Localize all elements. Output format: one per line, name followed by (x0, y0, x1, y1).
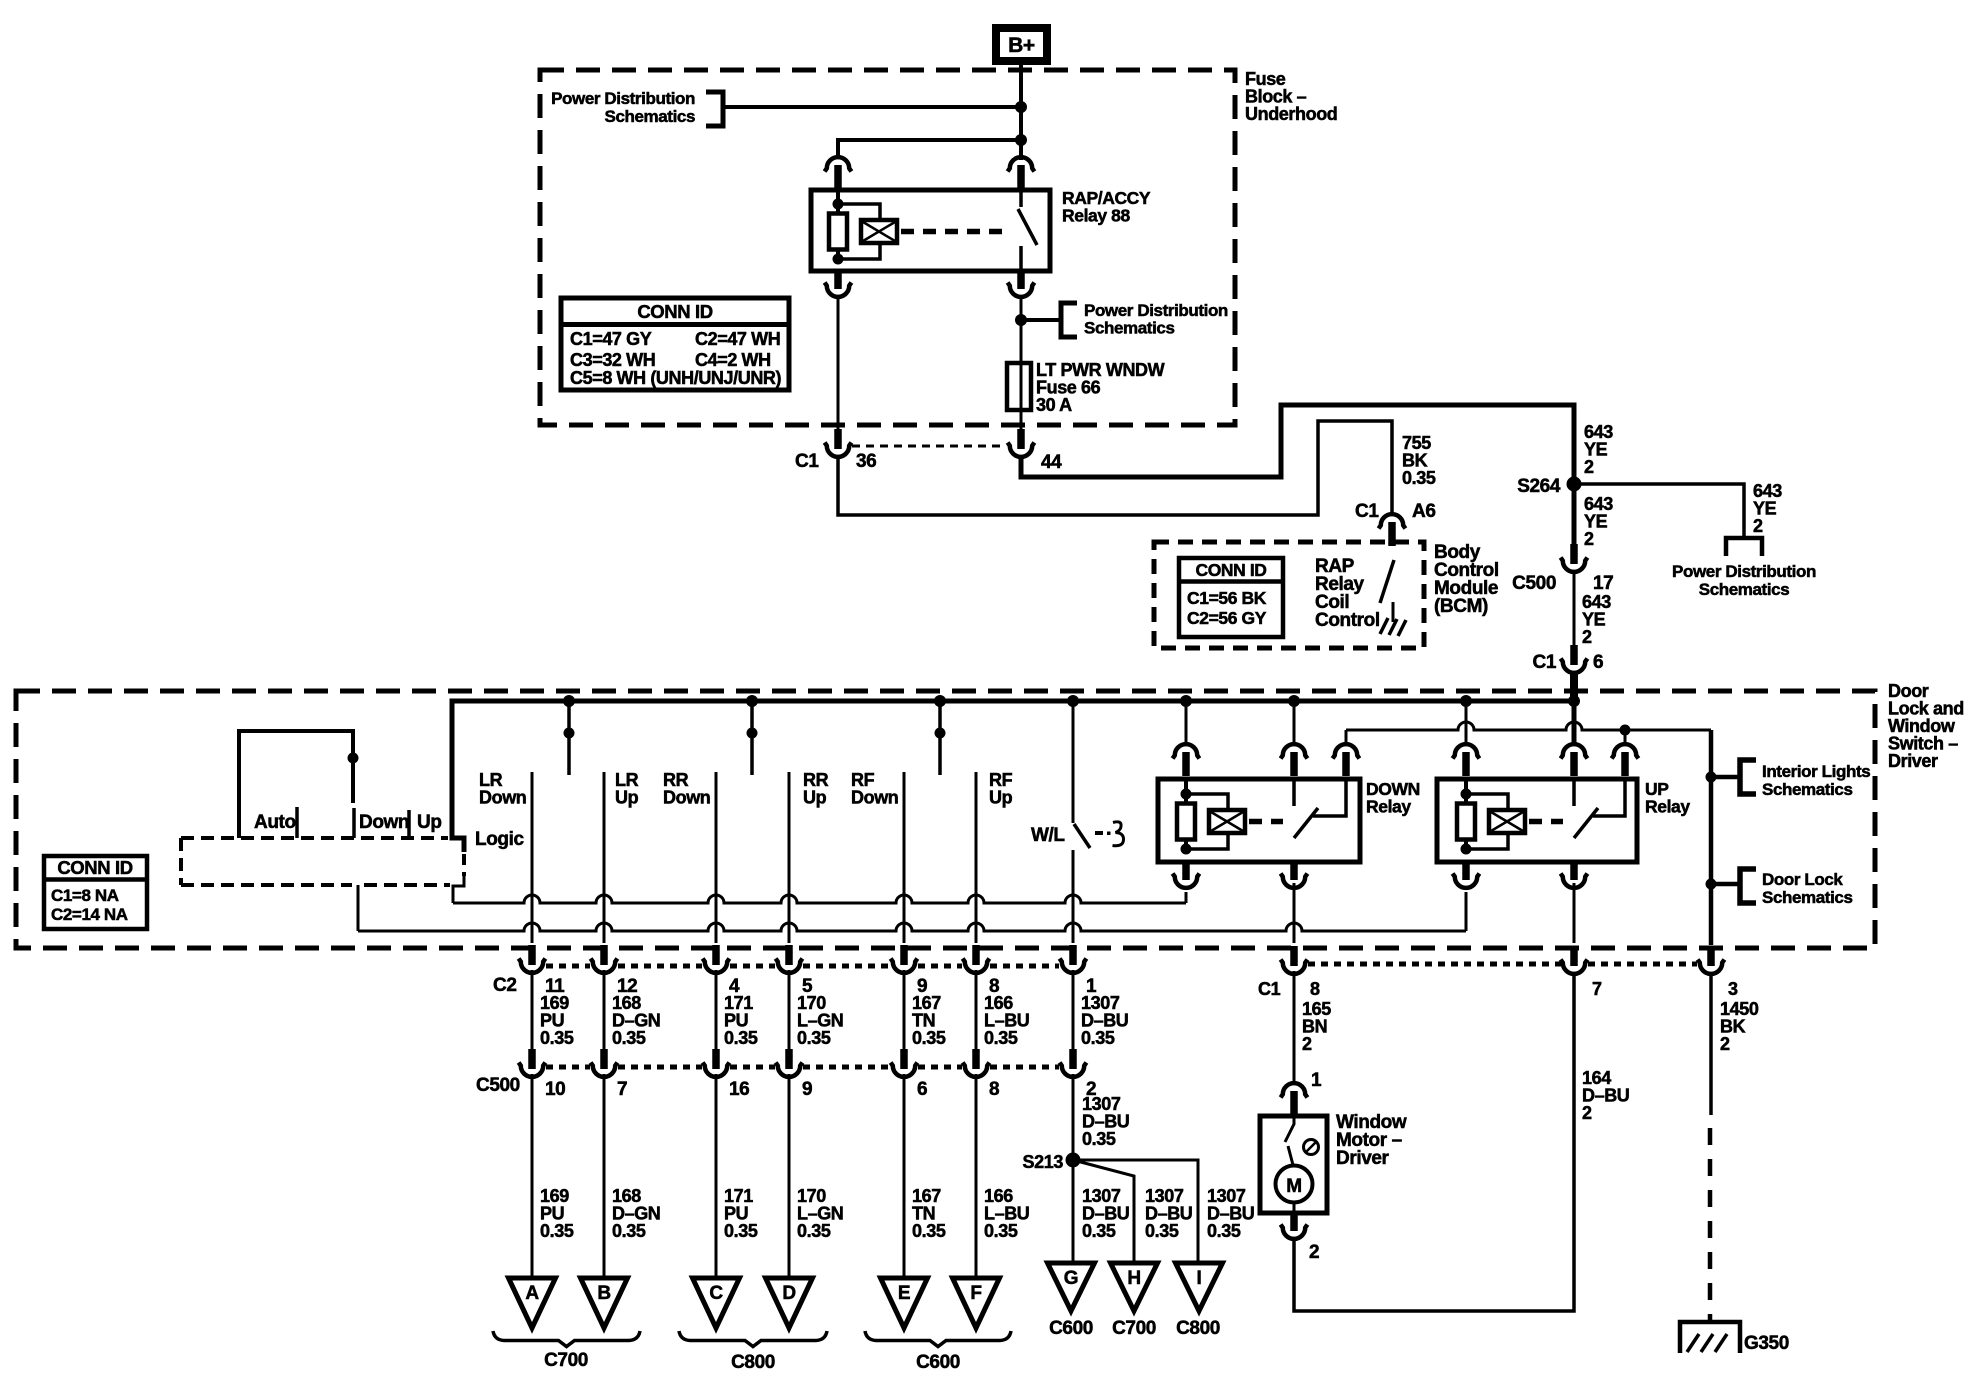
connector pin RAP relay coil top (86) (825, 157, 852, 171)
dashed connector gang C2 row (546, 964, 590, 969)
brace C600 (E-F) (865, 1331, 1011, 1347)
svg-text:8: 8 (989, 1079, 999, 1100)
svg-text:2: 2 (1582, 1103, 1592, 1123)
wire to PDS bracket (right) (1021, 318, 1061, 322)
bus junction dot DOWN relay coil (1180, 695, 1192, 707)
bracket Power Distribution Schematics (right) (1061, 303, 1077, 337)
svg-text:6: 6 (917, 1079, 927, 1100)
BCM switch lever (1380, 560, 1394, 603)
svg-text:C1: C1 (1355, 501, 1379, 522)
bus junction dot W/L (1067, 695, 1079, 707)
wire segment 168 to connector B (603, 1074, 606, 1279)
bus junction dot LR stub (563, 695, 575, 707)
wire segment 171 C2 to C500 (715, 970, 718, 1050)
svg-text:0.35: 0.35 (912, 1028, 946, 1048)
svg-text:C500: C500 (1512, 573, 1556, 594)
UP relay dashed actuator link (1529, 819, 1563, 825)
svg-text:C3=32 WH: C3=32 WH (570, 350, 655, 370)
brace C800 (C-D) (679, 1331, 827, 1347)
connector C500 pin 10 (528, 1049, 536, 1069)
connector C1-A6 BCM (1379, 514, 1406, 528)
svg-text:9: 9 (802, 1079, 812, 1100)
wire S213 to I (1073, 1160, 1198, 1263)
svg-text:0.35: 0.35 (1402, 468, 1436, 488)
svg-text:3: 3 (1728, 979, 1738, 999)
svg-text:C1: C1 (1258, 979, 1281, 999)
dashed connector gang C1 36-44 (852, 445, 1006, 448)
connector C2 pin 5 (785, 945, 793, 965)
relay DOWN Relay box (1158, 779, 1360, 862)
svg-text:2: 2 (1582, 627, 1592, 647)
svg-text:0.35: 0.35 (724, 1221, 758, 1241)
wire segment 171 to connector C (715, 1074, 718, 1279)
logic output wire to DOWN relay coil (453, 874, 464, 903)
connector C500 pin 6 (900, 1049, 908, 1069)
wire DOWN relay NO pin from interior-lights net (1345, 730, 1348, 745)
connector C1-36 (834, 429, 842, 449)
svg-text:Underhood: Underhood (1245, 104, 1337, 124)
svg-text:Control: Control (1315, 610, 1380, 631)
DOWN relay switch (1292, 779, 1296, 806)
wire RF Up (975, 772, 978, 943)
connector triangle B (581, 1278, 628, 1328)
wire to interior lights bracket (1711, 775, 1740, 780)
W/L lamp glyph (1113, 822, 1124, 846)
svg-text:0.35: 0.35 (612, 1028, 646, 1048)
bus junction dot UP relay coil (1460, 695, 1472, 707)
svg-text:Power Distribution: Power Distribution (1084, 301, 1228, 320)
motor Window Motor - Driver box (1260, 1116, 1327, 1213)
svg-text:W/L: W/L (1031, 825, 1065, 846)
svg-text:C5=8 WH (UNH/UNJ/UNR): C5=8 WH (UNH/UNJ/UNR) (570, 368, 782, 388)
wire S213 to H (1073, 1160, 1134, 1263)
svg-text:I: I (1197, 1268, 1202, 1289)
wire B+ vertical feed (1019, 65, 1023, 160)
svg-text:B: B (597, 1283, 610, 1304)
svg-text:C2=47 WH: C2=47 WH (695, 329, 780, 349)
svg-text:Relay: Relay (1645, 797, 1690, 817)
junction dot PDS tap (right) (1015, 314, 1027, 326)
svg-text:44: 44 (1041, 452, 1062, 473)
wire S264 branch to power distribution (1574, 484, 1744, 537)
bus feed wire (top bus) (452, 701, 1574, 852)
svg-text:M: M (1286, 1176, 1301, 1197)
wire C1-8 to motor pin 1 (1293, 971, 1296, 1084)
svg-text:A: A (525, 1283, 539, 1304)
wire 36 to BCM RAP relay coil control (755 BK) (838, 421, 1392, 515)
connector C2 pin 1 (1069, 945, 1077, 965)
connector triangle H (1111, 1263, 1158, 1311)
junction dot B+ / PDS tap (1015, 101, 1027, 113)
svg-text:Door Lock: Door Lock (1762, 870, 1843, 889)
connector motor pin 1 (1281, 1083, 1308, 1097)
svg-text:Relay: Relay (1366, 797, 1411, 817)
power symbol B+ (996, 28, 1047, 61)
svg-text:0.35: 0.35 (984, 1028, 1018, 1048)
wire C500-17 to C1-6 (1573, 570, 1576, 647)
wire fuse to C1-44 (1020, 410, 1023, 429)
fuse block underhood dashed box (540, 70, 1235, 425)
svg-text:CONN ID: CONN ID (57, 857, 132, 878)
connector C500-17 (1570, 544, 1578, 564)
svg-text:C700: C700 (1112, 1318, 1156, 1339)
svg-text:G: G (1064, 1268, 1078, 1289)
svg-text:D: D (782, 1283, 795, 1304)
wire segment 169 C2 to C500 (531, 970, 534, 1050)
bracket Interior Lights Schematics (1740, 760, 1756, 794)
wire PDS bracket to B+ feed (724, 105, 1021, 109)
wire W/L to C2-1 (1072, 850, 1075, 943)
logic output wire to UP relay coil (357, 885, 360, 931)
svg-text:Logic: Logic (475, 829, 524, 850)
wire motor pin 2 to UP relay (164 D-BU) (1294, 974, 1574, 1311)
connector pin DOWN relay coil bottom (1182, 860, 1190, 880)
connector triangle G (1048, 1263, 1095, 1311)
connector triangle I (1176, 1263, 1223, 1311)
svg-text:7: 7 (1592, 979, 1602, 999)
bracket Power Distribution Schematics (left) (706, 92, 723, 126)
DOWN relay dashed actuator link (1249, 819, 1283, 825)
svg-text:A6: A6 (1412, 501, 1436, 522)
motor circuit breaker (1285, 1118, 1294, 1142)
connector C2 pin 9 (900, 945, 908, 965)
wire W/L from bus (1072, 701, 1075, 823)
svg-text:0.35: 0.35 (1145, 1221, 1179, 1241)
wire segment 170 to connector D (788, 1074, 791, 1279)
svg-text:2: 2 (1720, 1034, 1730, 1054)
svg-text:2: 2 (1309, 1242, 1319, 1263)
relay UP Relay box (1437, 779, 1637, 862)
connector triangle C (693, 1278, 740, 1328)
bus junction dot UP relay contact (1568, 695, 1580, 707)
svg-text:Up: Up (989, 788, 1013, 808)
connector pin UP relay contact bottom (1570, 860, 1578, 880)
svg-text:C1: C1 (1533, 652, 1557, 673)
svg-text:C2: C2 (493, 975, 517, 996)
DOWN relay coil (1181, 789, 1192, 800)
svg-text:C1=8 NA: C1=8 NA (51, 886, 119, 905)
ground G350 symbol (1680, 1322, 1740, 1353)
svg-text:0.35: 0.35 (984, 1221, 1018, 1241)
svg-text:C800: C800 (731, 1352, 775, 1373)
wire relay coil-pin feed (838, 140, 1021, 158)
dashed connector gang C1 row (1308, 962, 1561, 967)
RAP relay coil (833, 199, 844, 210)
wire C1-3 ground (dashed part) (1708, 1128, 1713, 1322)
table CONN ID (BCM) (1179, 558, 1283, 637)
wire RAP contact to fuse (1020, 296, 1023, 363)
module Door Lock and Window Switch dashed box (16, 691, 1875, 948)
connector pin DOWN relay contact top (1293, 701, 1296, 745)
fuse LT PWR WNDW Fuse 66 30A (1007, 363, 1031, 410)
connector pin RAP relay coil bottom (85) (834, 269, 842, 289)
svg-text:(BCM): (BCM) (1434, 596, 1488, 617)
bracket Door Lock Schematics (1740, 869, 1756, 903)
svg-text:16: 16 (729, 1079, 749, 1100)
svg-text:C600: C600 (916, 1352, 960, 1373)
relay RAP/ACCY Relay 88 box (811, 190, 1050, 271)
wire UP relay output to C1-7 (1573, 883, 1576, 943)
connector triangle F (953, 1278, 1000, 1328)
connector C500 pin 2 (1069, 1049, 1077, 1069)
svg-text:Auto: Auto (254, 812, 296, 833)
wire RF Down (903, 772, 906, 943)
svg-text:Relay 88: Relay 88 (1062, 206, 1130, 226)
switch LR common stub (567, 701, 571, 775)
svg-text:17: 17 (1593, 573, 1613, 594)
up pin tick (407, 810, 411, 838)
svg-text:0.35: 0.35 (724, 1028, 758, 1048)
svg-text:Down: Down (663, 788, 710, 808)
BCM internal ground (1392, 602, 1395, 622)
svg-text:2: 2 (1584, 529, 1594, 549)
wire RR Down (715, 772, 718, 943)
svg-text:6: 6 (1593, 652, 1603, 673)
svg-text:B+: B+ (1008, 34, 1035, 57)
svg-text:8: 8 (1310, 979, 1320, 999)
motor M symbol (1276, 1166, 1313, 1203)
connector C1-8 (1290, 946, 1298, 966)
svg-text:H: H (1127, 1268, 1140, 1289)
connector pin UP relay contact top (1572, 703, 1577, 745)
brace C700 (A-B) (493, 1331, 640, 1347)
module BCM dashed box (1154, 542, 1424, 648)
wire LR Down (531, 772, 534, 943)
wire segment 166 to connector F (975, 1074, 978, 1279)
svg-text:2: 2 (1584, 457, 1594, 477)
connector triangle D (766, 1278, 813, 1328)
splice S213 (1066, 1153, 1081, 1168)
wire segment 166 C2 to C500 (975, 970, 978, 1050)
svg-text:0.35: 0.35 (912, 1221, 946, 1241)
svg-text:10: 10 (545, 1079, 565, 1100)
bus junction dot DOWN relay contact (1288, 695, 1300, 707)
W/L dashed link (1095, 831, 1103, 835)
junction dot relay feed split (1015, 134, 1027, 146)
UP relay coil (1461, 789, 1472, 800)
connector C2 pin 4 (712, 945, 720, 965)
wire RAP coil pin to C1-36 (837, 296, 840, 431)
svg-text:Driver: Driver (1336, 1148, 1390, 1169)
wire RR Up (788, 772, 791, 943)
connector C1-3 (1707, 946, 1715, 966)
W/L switch lever (1074, 824, 1090, 848)
svg-text:0.35: 0.35 (797, 1028, 831, 1048)
svg-text:C1=56 BK: C1=56 BK (1187, 588, 1267, 608)
svg-text:F: F (970, 1283, 981, 1304)
svg-text:C1: C1 (795, 451, 819, 472)
junction dot UP relay NO pin (1620, 725, 1631, 736)
splice S264 (1567, 477, 1582, 492)
svg-text:36: 36 (856, 451, 876, 472)
connector C2 pin 12 (600, 945, 608, 965)
connector C2 pin 11 (528, 945, 536, 965)
svg-text:C700: C700 (544, 1350, 588, 1371)
svg-text:Schematics: Schematics (605, 107, 696, 126)
connector C2 pin 8 (972, 945, 980, 965)
wire to door lock bracket (1711, 882, 1740, 887)
svg-text:30 A: 30 A (1036, 395, 1072, 415)
junction dot interior lights tap (1706, 772, 1717, 783)
down pin tick (352, 808, 356, 838)
svg-text:G350: G350 (1744, 1333, 1789, 1354)
svg-text:Down: Down (851, 788, 898, 808)
switch RR common stub (750, 701, 754, 775)
svg-text:7: 7 (617, 1079, 627, 1100)
wire C1-6 into switch (stub) (1570, 672, 1578, 703)
svg-text:C500: C500 (476, 1075, 520, 1096)
wire segment 167 to connector E (903, 1074, 906, 1279)
svg-text:C800: C800 (1176, 1318, 1220, 1339)
svg-text:0.35: 0.35 (540, 1221, 574, 1241)
connector C1-44 (1017, 429, 1025, 449)
wire C1-3 ground (solid part) (1709, 973, 1713, 1115)
svg-text:2: 2 (1753, 516, 1763, 536)
svg-text:Schematics: Schematics (1762, 780, 1853, 799)
svg-text:0.35: 0.35 (540, 1028, 574, 1048)
wire segment 168 C2 to C500 (603, 970, 606, 1050)
RAP relay switch (1019, 190, 1023, 207)
connector pin DOWN relay coil top (1185, 701, 1188, 745)
svg-text:Up: Up (417, 812, 442, 833)
svg-text:CONN ID: CONN ID (637, 301, 712, 322)
svg-text:Power Distribution: Power Distribution (1672, 562, 1816, 581)
wire LR Up (603, 772, 606, 943)
svg-text:0.35: 0.35 (612, 1221, 646, 1241)
auto switch loop wire (239, 731, 353, 838)
svg-text:E: E (898, 1283, 910, 1304)
svg-text:Down: Down (479, 788, 526, 808)
svg-text:C4=2 WH: C4=2 WH (695, 350, 771, 370)
svg-text:Schematics: Schematics (1699, 580, 1790, 599)
svg-text:C600: C600 (1049, 1318, 1093, 1339)
wire segment 167 C2 to C500 (903, 970, 906, 1050)
wire DOWN relay output to C1-8 (1293, 883, 1296, 943)
connector C500 pin 8 (972, 1049, 980, 1069)
svg-text:Schematics: Schematics (1762, 888, 1853, 907)
svg-text:2: 2 (1302, 1034, 1312, 1054)
dashed connector gang C500 row (546, 1065, 590, 1070)
svg-text:S213: S213 (1023, 1152, 1064, 1172)
wire segment 1307 C2 to C500 (1072, 970, 1075, 1050)
svg-text:Interior Lights: Interior Lights (1762, 762, 1870, 781)
svg-text:C2=14 NA: C2=14 NA (51, 905, 128, 924)
auto pin tick (295, 807, 299, 838)
connector C1-7 (1570, 946, 1578, 966)
svg-text:Power Distribution: Power Distribution (551, 89, 695, 108)
svg-text:C1=47 GY: C1=47 GY (570, 329, 652, 349)
svg-text:Up: Up (615, 788, 639, 808)
connector pin UP relay NO top (1612, 744, 1639, 758)
svg-text:CONN ID: CONN ID (1195, 560, 1266, 580)
connector C500 pin 7 (600, 1049, 608, 1069)
connector pin RAP relay contact top (30) (1008, 157, 1035, 171)
motor M to pin 2 wire (1293, 1202, 1296, 1213)
wire C500-2 to S213 (1072, 1074, 1075, 1160)
svg-text:C: C (709, 1283, 723, 1304)
RAP relay dashed actuator link (901, 229, 1005, 235)
connector pin RAP relay contact bottom (87) (1017, 269, 1025, 289)
svg-text:0.35: 0.35 (1082, 1221, 1116, 1241)
logic dashed box (181, 836, 448, 840)
connector C1-6 (1570, 645, 1578, 665)
wire interior-lights net (y730) (1346, 722, 1711, 730)
svg-text:0.35: 0.35 (1082, 1129, 1116, 1149)
connector pin DOWN relay contact bottom (1290, 860, 1298, 880)
connector triangle A (509, 1278, 556, 1328)
svg-text:Schematics: Schematics (1084, 319, 1175, 338)
table CONN ID (fuse block) (561, 298, 789, 390)
UP relay switch (1572, 779, 1576, 806)
wire segment 170 C2 to C500 (788, 970, 791, 1050)
svg-text:0.35: 0.35 (1207, 1221, 1241, 1241)
svg-text:0.35: 0.35 (1081, 1028, 1115, 1048)
wire 44 to S264 (supply) (1021, 405, 1574, 546)
bus junction dot RR stub (746, 695, 758, 707)
svg-text:C2=56 GY: C2=56 GY (1187, 608, 1267, 628)
bus junction dot RF stub (934, 695, 946, 707)
off-page bracket (power distribution) (1726, 538, 1762, 556)
svg-text:0.35: 0.35 (797, 1221, 831, 1241)
svg-text:Down: Down (359, 812, 409, 833)
connector motor pin 2 (1290, 1211, 1298, 1231)
wire segment 169 to connector A (531, 1074, 534, 1279)
connector C500 pin 16 (712, 1049, 720, 1069)
svg-text:1: 1 (1311, 1070, 1322, 1091)
svg-text:Driver: Driver (1888, 751, 1938, 771)
junction dot door lock tap (1706, 879, 1717, 890)
connector triangle E (881, 1278, 928, 1328)
connector pin UP relay coil top (1465, 701, 1468, 745)
connector C500 pin 9 (785, 1049, 793, 1069)
table CONN ID (door switch) (44, 856, 147, 929)
connector pin UP relay coil bottom (1462, 860, 1470, 880)
svg-text:S264: S264 (1517, 476, 1561, 497)
wire S213 to G (1072, 1160, 1075, 1263)
svg-text:Up: Up (803, 788, 827, 808)
switch RF common stub (938, 701, 942, 775)
